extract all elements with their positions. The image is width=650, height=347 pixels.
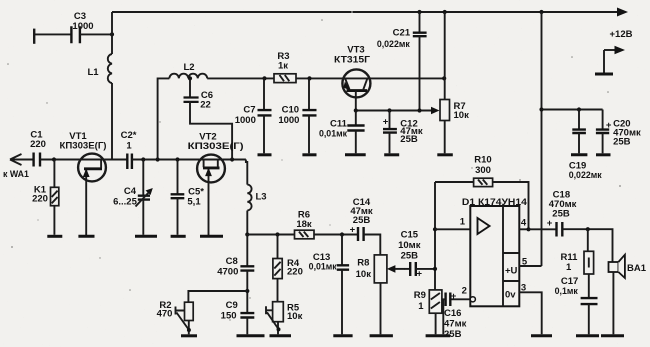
svg-text:220: 220 bbox=[30, 139, 46, 150]
svg-text:1к: 1к bbox=[278, 61, 288, 72]
svg-text:1000: 1000 bbox=[235, 115, 256, 126]
svg-text:220: 220 bbox=[287, 266, 303, 277]
svg-text:КП303Е(Г): КП303Е(Г) bbox=[60, 141, 107, 152]
svg-text:R9: R9 bbox=[414, 290, 426, 301]
svg-text:C8: C8 bbox=[226, 256, 238, 267]
svg-text:L1: L1 bbox=[87, 67, 99, 78]
svg-text:25В: 25В bbox=[400, 134, 418, 145]
svg-text:10к: 10к bbox=[287, 311, 303, 322]
svg-text:+: + bbox=[350, 225, 356, 236]
svg-text:КП303Е(Г): КП303Е(Г) bbox=[188, 141, 244, 152]
svg-text:+: + bbox=[606, 120, 612, 131]
svg-text:+: + bbox=[383, 117, 389, 128]
svg-text:C21: C21 bbox=[393, 28, 411, 39]
svg-text:10к: 10к bbox=[356, 269, 372, 280]
svg-text:1000: 1000 bbox=[72, 21, 93, 32]
svg-text:1: 1 bbox=[460, 217, 466, 228]
svg-text:C15: C15 bbox=[401, 230, 419, 241]
svg-text:220: 220 bbox=[32, 194, 48, 205]
svg-text:10к: 10к bbox=[454, 110, 470, 121]
svg-text:1000: 1000 bbox=[278, 115, 299, 126]
svg-text:C7: C7 bbox=[243, 105, 255, 116]
svg-text:C16: C16 bbox=[444, 308, 461, 319]
svg-text:КТ315Г: КТ315Г bbox=[334, 55, 371, 66]
svg-text:25В: 25В bbox=[353, 215, 371, 226]
svg-text:0v: 0v bbox=[505, 290, 516, 301]
svg-text:BA1: BA1 bbox=[627, 263, 647, 274]
svg-text:47мк: 47мк bbox=[444, 319, 467, 330]
svg-text:4: 4 bbox=[521, 218, 527, 229]
svg-text:+12В: +12В bbox=[610, 29, 633, 40]
svg-text:25В: 25В bbox=[444, 329, 462, 340]
svg-text:C10: C10 bbox=[282, 105, 299, 116]
svg-text:1: 1 bbox=[126, 141, 132, 152]
svg-text:470: 470 bbox=[157, 309, 173, 320]
svg-text:300: 300 bbox=[475, 165, 491, 176]
svg-text:25В: 25В bbox=[401, 250, 419, 261]
svg-text:25В: 25В bbox=[613, 137, 631, 148]
svg-text:6...25: 6...25 bbox=[113, 197, 137, 208]
svg-text:L2: L2 bbox=[183, 62, 194, 73]
svg-text:5,1: 5,1 bbox=[187, 197, 201, 208]
svg-text:25В: 25В bbox=[552, 209, 570, 220]
svg-text:18к: 18к bbox=[296, 219, 312, 230]
svg-text:+: + bbox=[451, 291, 457, 302]
svg-text:4700: 4700 bbox=[217, 267, 238, 278]
svg-text:L3: L3 bbox=[255, 192, 266, 203]
svg-text:0,01мк: 0,01мк bbox=[319, 129, 348, 139]
svg-text:к WA1: к WA1 bbox=[3, 169, 29, 179]
svg-text:+: + bbox=[547, 218, 553, 229]
svg-text:C2*: C2* bbox=[121, 130, 137, 141]
svg-text:22: 22 bbox=[200, 100, 211, 111]
svg-text:1: 1 bbox=[566, 262, 572, 273]
svg-text:2: 2 bbox=[462, 286, 467, 297]
svg-text:R8: R8 bbox=[357, 258, 369, 269]
svg-text:+U: +U bbox=[505, 266, 518, 277]
svg-text:0,022мк: 0,022мк bbox=[569, 170, 603, 180]
svg-text:0,022мк: 0,022мк bbox=[377, 39, 411, 49]
svg-text:+: + bbox=[417, 268, 423, 279]
svg-text:150: 150 bbox=[221, 311, 237, 322]
svg-text:D1 К174УН14: D1 К174УН14 bbox=[462, 197, 528, 208]
svg-text:0,1мк: 0,1мк bbox=[555, 286, 579, 296]
svg-text:C4: C4 bbox=[124, 186, 137, 197]
svg-text:1: 1 bbox=[418, 301, 424, 312]
svg-text:C9: C9 bbox=[226, 300, 238, 311]
svg-text:R10: R10 bbox=[474, 155, 491, 166]
svg-text:0,01мк: 0,01мк bbox=[309, 262, 338, 272]
